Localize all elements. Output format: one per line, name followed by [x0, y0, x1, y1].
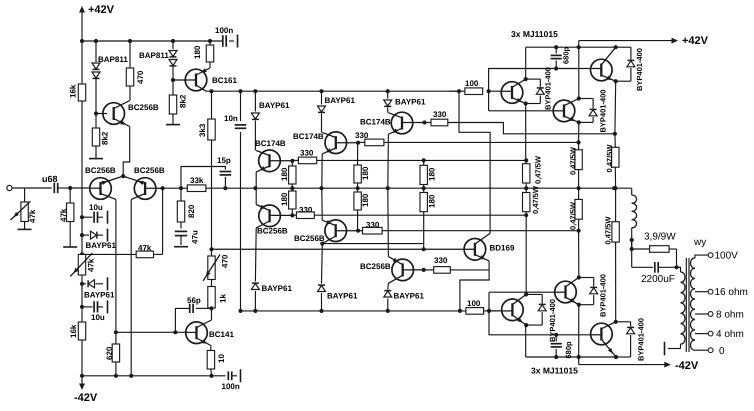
transistor BC174B stage1 [255, 139, 292, 172]
svg-text:u68: u68 [42, 174, 58, 184]
svg-text:680p: 680p [564, 341, 573, 359]
wire bias to 16k [81, 284, 83, 322]
svg-text:0,47/5W: 0,47/5W [569, 201, 578, 230]
terminal bar below 8k2 [89, 158, 103, 160]
node T2 em/L2 [577, 140, 581, 144]
wire stage2 lower collector/diode [318, 242, 358, 311]
wire B1 emitter col [525, 215, 527, 294]
svg-text:BAYP61: BAYP61 [394, 292, 425, 301]
node 680p/collector bus lower [554, 355, 558, 359]
svg-text:330: 330 [300, 148, 314, 157]
wire to diff base [70, 187, 94, 189]
terminal bar 47k shunt [63, 246, 77, 248]
svg-text:+42V: +42V [682, 35, 709, 47]
resistor 180 (BC161 emitter) [193, 41, 214, 68]
node stage3 lower base [422, 268, 426, 272]
node B3 emitter corner [614, 320, 618, 324]
svg-text:BYP401-400: BYP401-400 [598, 90, 607, 133]
svg-text:47k: 47k [59, 208, 68, 222]
diode BAYP61 (lower clamp) [82, 277, 115, 299]
wire lower base box [489, 292, 601, 335]
node bus/680p [554, 45, 558, 49]
wire driver rail (BC161 collector bus) [206, 90, 459, 92]
transistor BD169 [212, 233, 515, 261]
transistor BC256B diff left [85, 166, 123, 199]
wire BD169 emitter down [460, 261, 489, 311]
input terminal [7, 185, 12, 190]
tap 100V [708, 251, 738, 262]
wire -42V right rail [579, 357, 699, 372]
node bus/stage2 [319, 309, 323, 313]
resistor 620 (diff load) [105, 344, 120, 376]
svg-text:0,47/5W: 0,47/5W [569, 146, 578, 175]
node rail/16k [80, 39, 84, 43]
svg-text:180: 180 [280, 192, 289, 206]
node T3 em/L3 [613, 132, 617, 136]
-42V supply arrow (bottom left) [74, 376, 98, 404]
node rail/BAP811 [94, 39, 98, 43]
node H1/3k3 [209, 89, 213, 93]
wire collector bus top [526, 46, 616, 48]
node main bus / emitter col3 [614, 186, 618, 190]
resistor 0,47/5W e2 upper [569, 142, 583, 188]
resistor 180 stage2 upper [354, 143, 370, 189]
resistor 180 stage1 lower [280, 188, 296, 215]
wire T2 collector [578, 47, 580, 98]
resistor 33k [187, 176, 206, 192]
svg-text:330: 330 [433, 110, 447, 119]
transistor BC174B stage3 [360, 112, 425, 134]
svg-text:BD169: BD169 [490, 244, 515, 253]
node rail/620 [114, 374, 118, 378]
svg-text:100: 100 [467, 299, 481, 308]
transistor BC256B stage3 lower [360, 257, 424, 284]
diode BAYP61 stage3 upper [384, 91, 426, 113]
node H1/stage3 [386, 89, 390, 93]
diode pair BAP811 (second) [139, 41, 177, 80]
capacitor 100n (bottom) [212, 369, 241, 391]
wire 47k feedback left [82, 253, 136, 255]
node H1/stage1 [253, 89, 257, 93]
svg-text:BAP811: BAP811 [139, 51, 169, 60]
svg-text:0,47/5W: 0,47/5W [605, 144, 614, 173]
wire T1 emitter col [525, 104, 527, 161]
svg-text:180: 180 [428, 194, 437, 208]
svg-text:BAYP61: BAYP61 [259, 101, 290, 110]
svg-text:47k: 47k [87, 258, 96, 272]
node bus/stage1 [253, 309, 257, 313]
node 1k/56p/collector [209, 306, 213, 310]
svg-text:16k: 16k [69, 84, 78, 98]
wire coil node down [631, 241, 633, 268]
wire base line upper (100 in) [449, 90, 465, 92]
node bus/680p lower [554, 333, 558, 337]
transistor MJ11015 B1 [502, 294, 527, 325]
diode BAYP61 stage1 upper [251, 91, 290, 150]
resistor 16k (top left) [69, 41, 86, 188]
svg-text:BYP401-400: BYP401-400 [599, 274, 608, 317]
wire upper driver staircase [459, 91, 490, 233]
node BC141 base line/56p [173, 330, 177, 334]
wire lower drive bus [241, 310, 466, 312]
resistor 100 (upper driver) [465, 79, 483, 95]
wire T3 emitter col [614, 81, 617, 134]
svg-text:330: 330 [355, 131, 369, 140]
svg-text:3,9/9W: 3,9/9W [644, 232, 676, 243]
svg-text:BYP401-400: BYP401-400 [544, 67, 553, 110]
node B1 em/L1' [524, 213, 528, 217]
resistor 0,47/5W e2 lower [569, 188, 583, 231]
wire T1 collector [525, 47, 527, 79]
resistor 0,47/5W e1 upper [523, 155, 543, 188]
svg-text:0: 0 [719, 346, 725, 357]
diode BAYP61 stage2 upper [318, 91, 356, 132]
resistor 180 stage3 upper [420, 160, 437, 188]
resistor 180 stage3 lower [420, 188, 437, 249]
node stage1 lower base [290, 213, 294, 217]
capacitor 47u [175, 230, 200, 245]
capacitor 10u (upper clamp) [82, 203, 108, 224]
wire L2' line [382, 230, 578, 232]
svg-text:BAYP61: BAYP61 [262, 284, 293, 293]
resistor 330 stage2 lower link [358, 221, 382, 235]
node lower base box [487, 309, 491, 313]
node rail/10 ohm [209, 374, 213, 378]
wire B2 emitter col [578, 231, 580, 278]
wire damping R to cap node [676, 249, 678, 267]
wire B2 collector [578, 305, 580, 357]
resistor 180 stage2 lower [354, 188, 370, 231]
svg-text:BC256B: BC256B [128, 103, 159, 112]
node bus/BD169 em [458, 309, 462, 313]
node T3 collector corner [614, 45, 618, 49]
resistor 16k (bottom left) [69, 322, 86, 376]
node coil/damping R [630, 238, 634, 251]
wire stage1 lower emitter [255, 188, 257, 204]
svg-text:BYP401-400: BYP401-400 [637, 318, 646, 361]
transistor BC141 [186, 320, 235, 346]
wire stage3 emitter to main [387, 134, 390, 188]
wire collector bus bottom [526, 356, 616, 358]
svg-text:-42V: -42V [74, 392, 98, 404]
node T3 emitter corner [614, 79, 618, 83]
svg-text:3x MJ11015: 3x MJ11015 [511, 29, 558, 39]
wire L2 line [358, 141, 578, 143]
node BAP811/8k2 base junction [94, 111, 98, 115]
transistor MJ11015 B2 [553, 278, 579, 305]
node main bus / 180 pair1 [290, 186, 294, 190]
diode BAYP61 (upper clamp) [82, 229, 116, 250]
svg-text:16k: 16k [69, 324, 78, 338]
svg-text:330: 330 [299, 206, 313, 215]
inductor (output coil) [632, 188, 637, 248]
resistor 8k2 (left) [92, 114, 109, 159]
transformer core [686, 258, 689, 352]
node stage2 lower base [356, 229, 360, 233]
node stage2 base [356, 141, 360, 145]
diode BYP401-400 T3 [616, 47, 644, 91]
wire stage3 lower collector/diode [384, 283, 425, 311]
transistor MJ11015 T2 [553, 99, 579, 123]
node 15p/main [223, 186, 227, 190]
svg-text:100n: 100n [222, 382, 240, 391]
svg-text:56p: 56p [187, 296, 201, 305]
resistor 820 (feedback) [177, 188, 196, 228]
wire stage1 lower collector/diode [251, 228, 292, 311]
node feedback divider [179, 186, 183, 190]
potentiometer 47k (offset) [70, 253, 95, 284]
transistor BC256B stage1 lower [256, 205, 292, 236]
svg-text:620: 620 [105, 346, 114, 360]
node bus/10n col [238, 309, 242, 313]
resistor 3,9/9W [632, 232, 677, 253]
svg-text:BC256B: BC256B [257, 227, 288, 236]
svg-text:BC174B: BC174B [293, 132, 324, 141]
resistor 47k (input shunt) [59, 188, 74, 247]
wire 330 to BD169 emitter [450, 269, 489, 271]
svg-text:10: 10 [217, 354, 226, 363]
wire to transformer primary [677, 266, 682, 268]
wire diff right collector [130, 199, 132, 375]
resistor 1k [208, 280, 228, 309]
svg-text:8k2: 8k2 [100, 131, 109, 145]
node B2 lower corner [577, 303, 581, 307]
svg-text:0,47/5W: 0,47/5W [604, 216, 613, 245]
wire input [12, 187, 52, 189]
svg-text:BC256B: BC256B [294, 234, 325, 243]
+42V supply arrow (top left) [79, 4, 115, 41]
svg-text:0,47/5W: 0,47/5W [531, 185, 540, 214]
resistor 180 stage1 upper [280, 161, 296, 188]
potentiometer 47k (input) [11, 188, 38, 229]
transformer secondary winding [691, 255, 709, 350]
node main bus / emitter col2 [577, 186, 581, 190]
resistor 3k3 [198, 91, 215, 188]
resistor 330 stage1 link [298, 148, 316, 163]
svg-text:820: 820 [187, 204, 196, 218]
capacitor 680p lower [551, 335, 573, 359]
node rail/470 [128, 39, 132, 43]
node 180col/BD169 base [422, 247, 426, 251]
svg-text:15p: 15p [217, 156, 231, 165]
resistor 330 stage2 link [355, 131, 384, 146]
svg-text:100V: 100V [715, 251, 739, 262]
svg-text:330: 330 [434, 256, 448, 265]
node B1 upper corner [524, 292, 528, 296]
svg-text:BC161: BC161 [212, 76, 237, 85]
svg-text:3k3: 3k3 [198, 123, 207, 137]
svg-text:100: 100 [465, 79, 479, 88]
wire L1' line [314, 214, 526, 216]
wire +42V right rail [579, 35, 709, 47]
capacitor 100n (top) [215, 26, 234, 47]
resistor 8k2 (second) [169, 80, 187, 124]
label 3x MJ11015 top [511, 29, 558, 39]
svg-text:2200uF: 2200uF [641, 274, 675, 285]
tap 16 ohm [695, 287, 748, 298]
diode pair BAP811 (left) [92, 41, 128, 114]
node main bus / inductor [612, 186, 616, 190]
svg-text:10n: 10n [224, 114, 238, 123]
transistor MJ11015 T1 [501, 79, 526, 103]
node H1/stage2 [319, 89, 323, 93]
svg-text:10u: 10u [89, 203, 103, 212]
svg-text:180: 180 [428, 167, 437, 181]
terminal bar input pot [18, 228, 32, 230]
node T1 collector corner [524, 77, 528, 81]
svg-text:8k2: 8k2 [179, 94, 188, 108]
node upper base box [487, 89, 491, 93]
svg-text:BC174B: BC174B [360, 118, 391, 127]
diode BYP401-400 B3 [616, 318, 646, 361]
wire y243 link [322, 243, 423, 245]
transistor BC256B diff right [123, 166, 165, 199]
diode BYP401-400 T2 [579, 90, 608, 133]
node main bus / 180 pair2 [356, 186, 360, 190]
node main bus / emitter col1 [524, 186, 528, 190]
svg-text:1k: 1k [219, 294, 228, 303]
resistor 0,47/5W e3 upper [605, 134, 619, 188]
terminal bar after 100n [237, 35, 239, 48]
node bus/stage3 [386, 309, 390, 313]
node rail/diff right collector [129, 374, 133, 378]
node stage1 base [290, 159, 294, 163]
node driver/staircase [457, 89, 461, 93]
svg-text:180: 180 [280, 167, 289, 181]
wire +42V top-left rail [82, 40, 222, 42]
node rail/16k bottom [80, 374, 84, 378]
svg-text:180: 180 [193, 45, 202, 59]
resistor 100 (lower driver) [466, 299, 484, 314]
label 3x MJ11015 bottom [531, 366, 578, 376]
terminal bar primary bottom [664, 342, 666, 356]
capacitor 10u (lower clamp) [82, 300, 108, 322]
svg-text:BAYP61: BAYP61 [327, 292, 358, 301]
node bias/10u [80, 215, 84, 219]
node rail/180 [208, 39, 212, 43]
svg-text:wy: wy [693, 237, 706, 248]
resistor 470 (top) [126, 41, 145, 100]
svg-text:0,47/5W: 0,47/5W [534, 155, 543, 184]
diode BYP401-400 B2 [579, 274, 608, 317]
resistor 0,47/5W e1 lower [523, 185, 541, 215]
svg-text:BC256B: BC256B [85, 166, 116, 175]
transistor BC174B stage2 [293, 132, 358, 154]
svg-text:47k: 47k [138, 244, 152, 253]
wire diff left collector [115, 199, 117, 344]
node bias/diode2 [80, 282, 84, 286]
diode BYP401-400 B1 [526, 294, 557, 342]
node diff-load/BC141 base [114, 330, 118, 334]
wire B3 emitter col [615, 242, 617, 322]
node BAP811-2/base [171, 78, 175, 82]
node 680p/base bus [554, 66, 558, 70]
capacitor 56p [175, 296, 211, 332]
node main bus / stage3 column [386, 186, 390, 190]
node collector bus/+42 rail [577, 45, 581, 49]
transformer primary winding [668, 267, 685, 348]
resistor 330 stage1 lower link [292, 206, 314, 219]
svg-text:3x MJ11015: 3x MJ11015 [531, 366, 578, 376]
node base/33k [161, 186, 165, 190]
wire stage2 lower emitter [321, 188, 323, 220]
svg-text:BC174B: BC174B [255, 139, 286, 148]
wire BC141 collector [211, 308, 213, 320]
svg-text:33k: 33k [190, 176, 204, 185]
svg-text:470: 470 [221, 254, 230, 268]
tap 8 ohm [695, 310, 744, 321]
svg-text:BAYP61: BAYP61 [86, 241, 117, 250]
capacitor 15p bridge [181, 156, 231, 188]
label wy [693, 237, 706, 248]
wire after 33k [206, 187, 632, 189]
svg-text:100n: 100n [215, 26, 233, 35]
wire stage1 emitter to main [255, 172, 257, 188]
wire L3 staircase [425, 123, 615, 134]
wire BC141 base line [116, 331, 191, 333]
node rail/BAP811-2 [171, 39, 175, 43]
transistor BC256B current source [96, 101, 159, 127]
svg-text:+42V: +42V [88, 4, 115, 16]
svg-text:-42V: -42V [675, 360, 699, 372]
tap 4 ohm [695, 329, 744, 340]
svg-text:BYP401-400: BYP401-400 [635, 48, 644, 91]
wire upper base box [489, 69, 602, 111]
wire CS collector to diff emitters [123, 127, 130, 177]
wire -42V rail left [82, 375, 212, 377]
svg-text:16 ohm: 16 ohm [715, 287, 748, 298]
wire main bus left [163, 187, 188, 189]
transistor BC161 [173, 68, 237, 91]
svg-text:10u: 10u [91, 313, 105, 322]
svg-text:BC256B: BC256B [360, 262, 391, 271]
node diff common emitters [121, 174, 125, 178]
node B2 em/L2' [577, 229, 581, 233]
node L1/180 pair3 [422, 158, 426, 162]
wire bias column [81, 188, 83, 254]
svg-text:BAYP61: BAYP61 [395, 98, 426, 107]
svg-text:BAYP61: BAYP61 [84, 291, 115, 300]
node H1/10n [238, 89, 242, 93]
wire base to T1 [489, 90, 501, 92]
node main bus / 180 pair3 [422, 186, 426, 190]
capacitor 680p upper [551, 46, 571, 68]
node T2 collector corner [577, 96, 581, 100]
svg-text:47u: 47u [191, 230, 200, 244]
wire stage2 emitter to main [321, 154, 323, 188]
wire stage3 lower emitter [387, 188, 390, 256]
node input/47k [68, 186, 72, 190]
resistor 330 stage3 link [431, 110, 448, 126]
resistor 0,47/5W e3 lower [604, 188, 620, 244]
node B2 upper corner [577, 275, 581, 279]
node cap/primary [674, 265, 678, 269]
svg-text:680p: 680p [562, 46, 571, 64]
wire B1 collector [525, 325, 527, 357]
svg-text:BAYP61: BAYP61 [325, 96, 356, 105]
svg-text:180: 180 [361, 166, 370, 180]
transistor BC256B stage2 lower [294, 220, 358, 244]
transistor MJ11015 B3 [591, 322, 616, 357]
svg-text:8 ohm: 8 ohm [716, 310, 744, 321]
node collector bus/-42 rail [577, 355, 581, 359]
node 470pot/BD169 base line [209, 247, 213, 251]
diode BYP401-400 T1 [526, 67, 553, 110]
node bias/10u2 [80, 305, 84, 309]
svg-text:BC256B: BC256B [134, 166, 165, 175]
wire base to B1 [489, 310, 501, 312]
node T1 emitter corner [524, 101, 528, 105]
